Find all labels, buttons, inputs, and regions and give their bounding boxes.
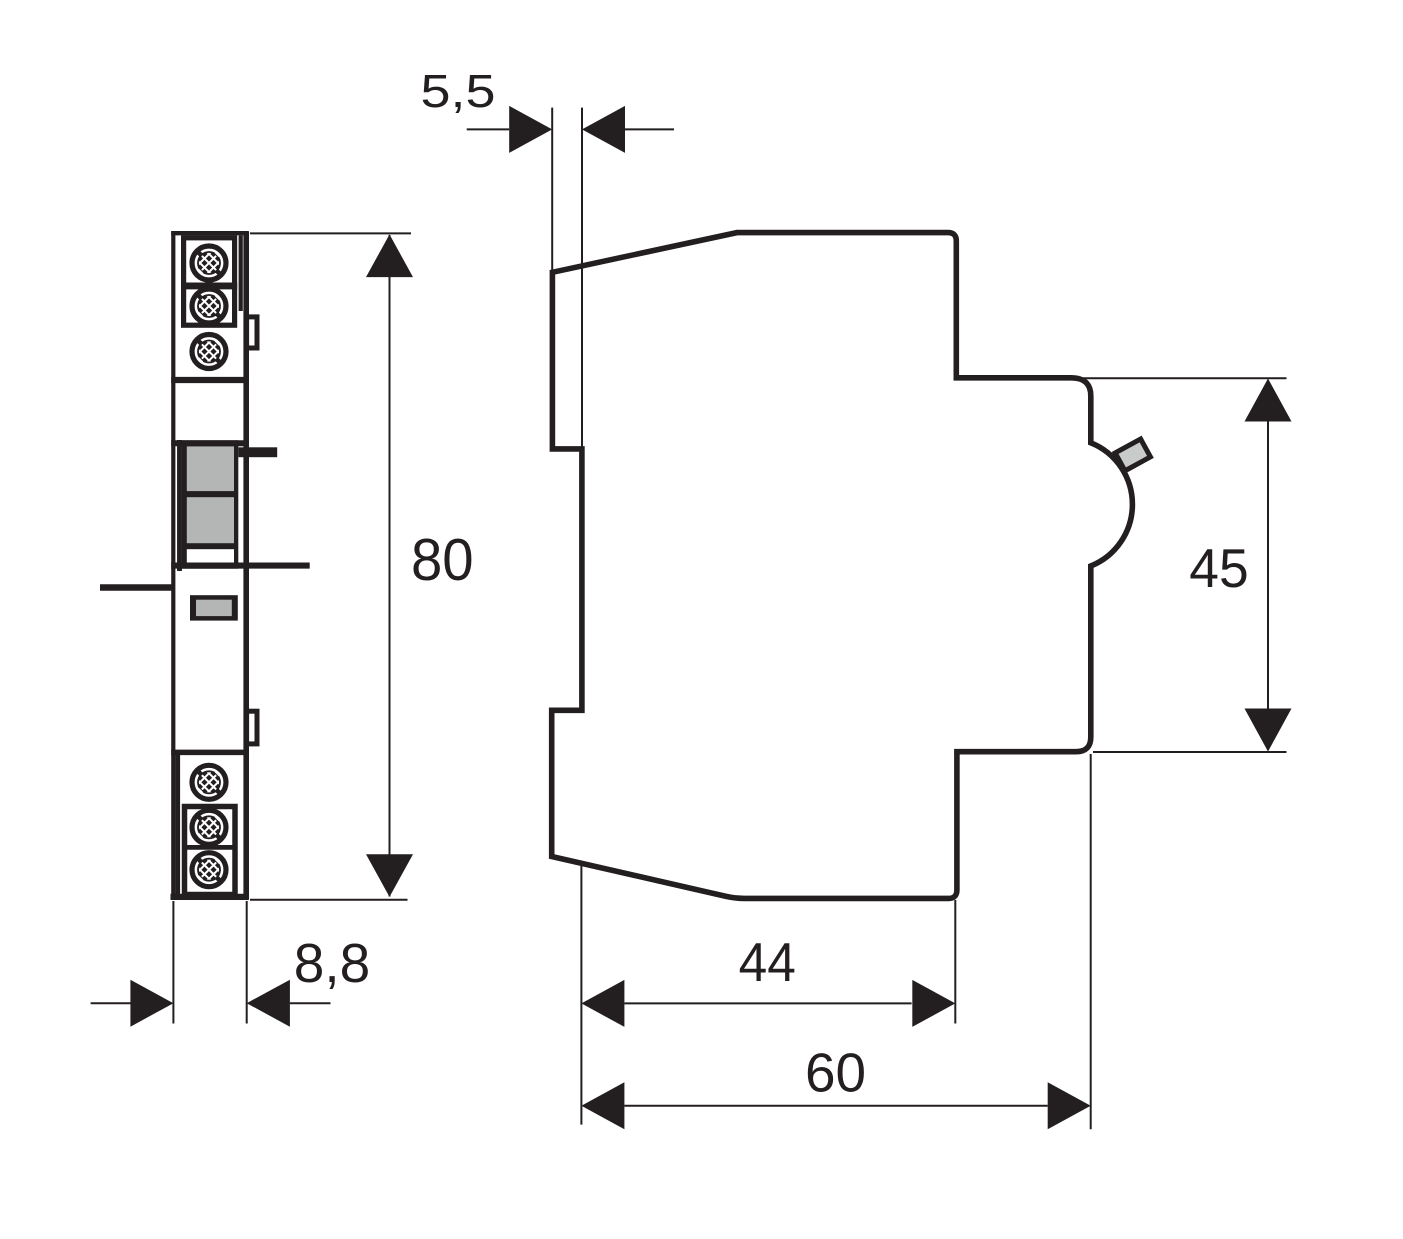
dim 5,5 extension line left xyxy=(551,108,553,273)
dim 45 line xyxy=(1267,380,1269,750)
dim 60 extension right xyxy=(1090,754,1092,1129)
dim 8,8 extension left xyxy=(172,901,174,1024)
gray window 1 xyxy=(187,446,234,491)
section divider 3 xyxy=(171,750,248,756)
top terminal box xyxy=(184,238,235,325)
dim 8,8 extension right xyxy=(246,901,248,1024)
dim 44 left arrowhead xyxy=(581,980,624,1027)
dim 5,5 extension line right xyxy=(581,108,583,450)
dim 45 bottom arrowhead xyxy=(1245,709,1292,752)
svg-text:80: 80 xyxy=(411,527,474,593)
toggle lever xyxy=(1115,439,1150,471)
dim 60 left arrowhead xyxy=(581,1082,624,1129)
screw terminal 3 xyxy=(191,333,228,370)
dim 80 extension bottom xyxy=(250,899,408,901)
dim 45 extension bottom xyxy=(1093,751,1287,753)
inner left wall line (bottom) xyxy=(175,750,180,899)
dim 8,8 arrow lines xyxy=(91,1002,131,1004)
right black bar xyxy=(238,447,277,457)
white window xyxy=(187,549,234,562)
divider A across module xyxy=(171,440,246,446)
right tab 2 xyxy=(247,711,257,744)
profile interior xyxy=(552,233,1133,899)
screw terminal 1 xyxy=(191,245,228,282)
dim 45 extension top xyxy=(1082,377,1287,379)
dim 60 right arrowhead xyxy=(1048,1082,1091,1129)
dim 60 line xyxy=(624,1105,1047,1107)
right tab 1 xyxy=(247,317,257,348)
left protruding line xyxy=(100,584,173,591)
arrowheads xyxy=(130,106,1291,1129)
dim 80 top arrowhead xyxy=(366,234,413,277)
svg-text:60: 60 xyxy=(805,1041,866,1103)
svg-text:8,8: 8,8 xyxy=(294,932,371,994)
svg-text:5,5: 5,5 xyxy=(421,65,496,117)
dim 44/60 extension left xyxy=(580,862,582,1125)
divider between screw 5 and screw 6 xyxy=(182,845,238,850)
gray window 2 xyxy=(187,497,234,543)
screw terminal 2 xyxy=(191,288,228,325)
screw terminal 6 xyxy=(191,851,228,888)
dim 5,5 arrow lines xyxy=(467,128,510,130)
dim 8,8 right arrowhead xyxy=(247,980,290,1027)
dim 5,5 left arrowhead xyxy=(509,106,552,153)
screw terminal 5 xyxy=(191,809,228,846)
dim 45 top arrowhead xyxy=(1245,379,1292,422)
gray block frame xyxy=(182,440,238,568)
dim 44 line xyxy=(624,1002,911,1004)
svg-text:45: 45 xyxy=(1189,537,1248,599)
small gray indicator box xyxy=(190,595,238,620)
dim 80 extension top xyxy=(250,232,411,234)
module outer outline xyxy=(171,231,249,899)
dim 44 extension right xyxy=(954,900,956,1024)
bottom terminal box xyxy=(185,807,236,895)
inner right wall line (top) xyxy=(239,235,243,311)
screw terminal 4 xyxy=(191,764,228,801)
svg-text:44: 44 xyxy=(739,931,796,993)
dim 44 right arrowhead xyxy=(912,980,955,1027)
section divider 1 xyxy=(171,377,248,383)
dim 5,5 right arrowhead xyxy=(582,106,625,153)
dim 80 bottom arrowhead xyxy=(366,854,413,897)
divider between screw 1 and screw 2 xyxy=(181,282,237,289)
dim 80 line xyxy=(389,235,391,897)
dim 8,8 left arrowhead xyxy=(130,980,173,1027)
divider B with right extension xyxy=(171,563,310,569)
inner left wall line (middle) xyxy=(177,440,182,571)
side profile outline xyxy=(552,233,1133,899)
